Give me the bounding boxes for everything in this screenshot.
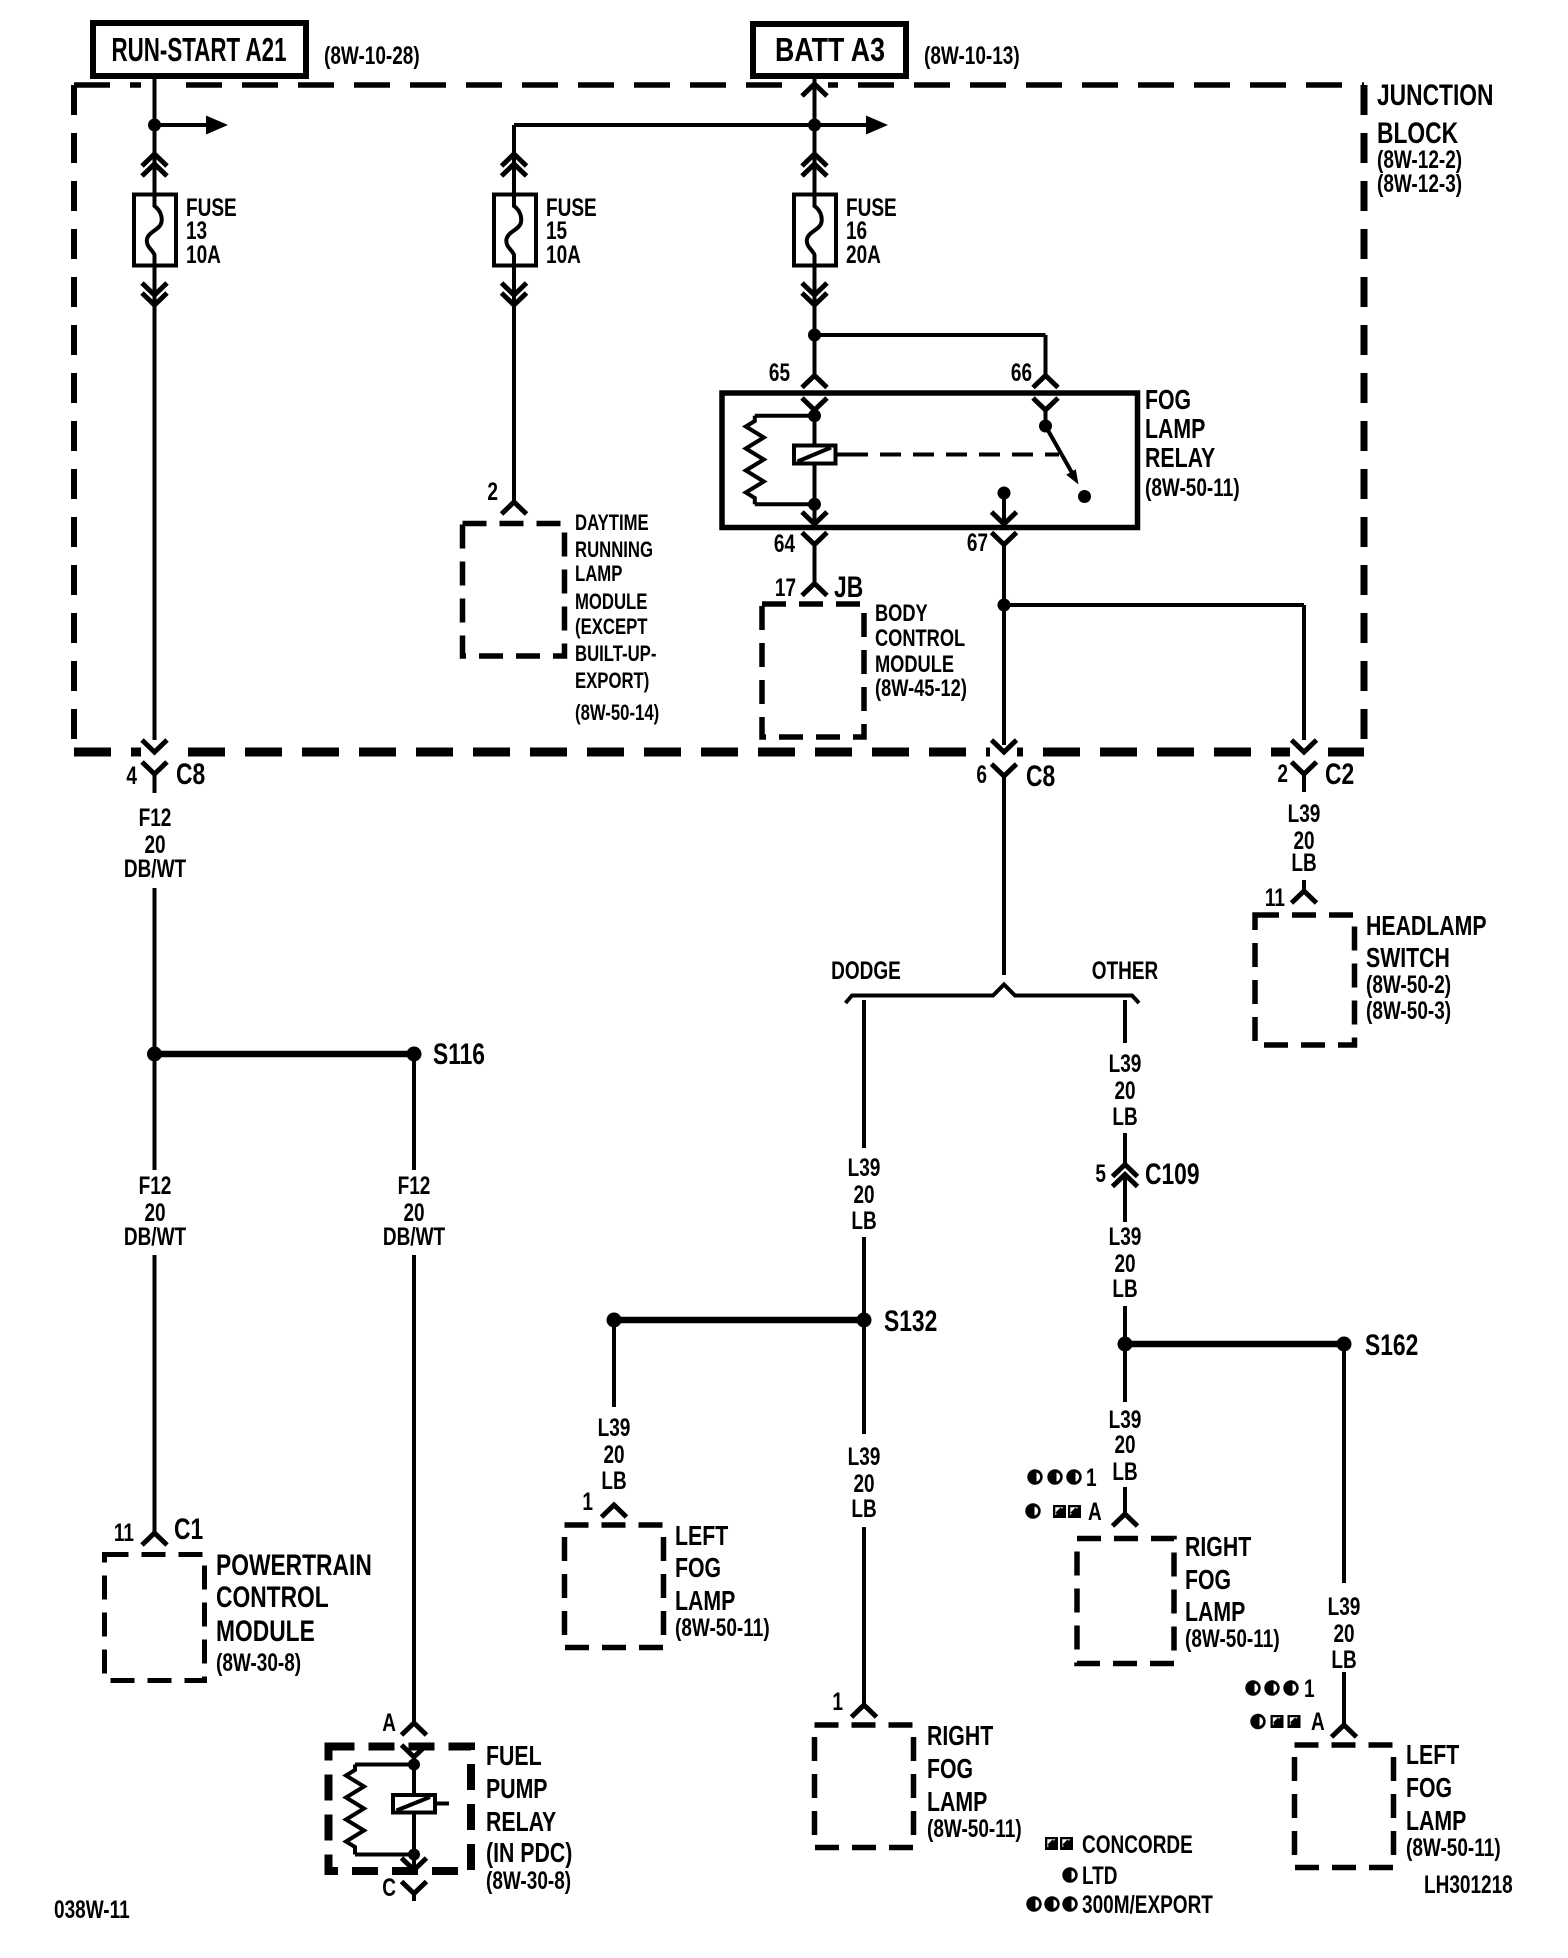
svg-text:LB: LB: [1112, 1103, 1137, 1131]
svg-text:(8W-50-2): (8W-50-2): [1366, 971, 1451, 999]
svg-text:BUILT-UP-: BUILT-UP-: [575, 641, 656, 666]
svg-text:20: 20: [1114, 1250, 1135, 1278]
svg-text:MODULE: MODULE: [875, 651, 954, 678]
svg-text:300M/EXPORT: 300M/EXPORT: [1082, 1891, 1213, 1919]
svg-text:(8W-30-8): (8W-30-8): [486, 1867, 571, 1895]
svg-text:LAMP: LAMP: [1145, 413, 1205, 444]
svg-text:10A: 10A: [186, 241, 221, 269]
svg-text:67: 67: [967, 529, 988, 557]
svg-text:(8W-12-3): (8W-12-3): [1377, 170, 1462, 198]
svg-text:F12: F12: [398, 1172, 431, 1200]
svg-text:CONCORDE: CONCORDE: [1082, 1831, 1193, 1859]
svg-text:FOG: FOG: [675, 1552, 721, 1583]
svg-text:11: 11: [114, 1519, 134, 1547]
svg-text:LB: LB: [1291, 849, 1316, 877]
svg-text:(8W-50-3): (8W-50-3): [1366, 997, 1451, 1025]
svg-text:DB/WT: DB/WT: [383, 1223, 445, 1251]
svg-text:LB: LB: [1112, 1275, 1137, 1303]
svg-text:RUNNING: RUNNING: [575, 537, 653, 562]
svg-text:20: 20: [1114, 1431, 1135, 1459]
svg-text:LB: LB: [601, 1467, 626, 1495]
svg-text:(EXCEPT: (EXCEPT: [575, 614, 648, 639]
svg-text:6: 6: [976, 761, 987, 789]
svg-text:2: 2: [487, 478, 498, 506]
svg-text:(8W-50-11): (8W-50-11): [927, 1815, 1022, 1843]
svg-text:F12: F12: [139, 804, 172, 832]
svg-text:1: 1: [1304, 1675, 1315, 1703]
svg-text:RELAY: RELAY: [486, 1806, 556, 1837]
svg-text:L39: L39: [1109, 1223, 1142, 1251]
svg-text:S162: S162: [1365, 1329, 1418, 1362]
svg-text:LEFT: LEFT: [675, 1520, 728, 1551]
svg-text:20: 20: [853, 1181, 874, 1209]
svg-text:4: 4: [126, 762, 137, 790]
svg-text:CONTROL: CONTROL: [216, 1581, 329, 1614]
svg-text:LTD: LTD: [1082, 1862, 1118, 1890]
svg-text:20: 20: [853, 1470, 874, 1498]
svg-text:A: A: [1311, 1708, 1325, 1736]
svg-text:(8W-50-11): (8W-50-11): [1185, 1625, 1280, 1653]
svg-text:17: 17: [775, 574, 796, 602]
svg-text:S116: S116: [433, 1038, 485, 1071]
svg-text:HEADLAMP: HEADLAMP: [1366, 910, 1487, 941]
svg-text:1: 1: [582, 1488, 593, 1516]
svg-text:(8W-50-14): (8W-50-14): [575, 700, 659, 725]
svg-text:LAMP: LAMP: [575, 561, 622, 586]
svg-text:64: 64: [774, 530, 795, 558]
svg-text:10A: 10A: [546, 241, 581, 269]
svg-text:DAYTIME: DAYTIME: [575, 510, 649, 535]
svg-text:20: 20: [1114, 1077, 1135, 1105]
svg-text:(8W-10-28): (8W-10-28): [324, 42, 420, 70]
svg-text:F12: F12: [139, 1172, 172, 1200]
svg-text:L39: L39: [848, 1154, 881, 1182]
svg-text:(IN PDC): (IN PDC): [486, 1837, 572, 1868]
svg-text:65: 65: [769, 359, 790, 387]
svg-text:S132: S132: [884, 1305, 937, 1338]
svg-text:(8W-50-11): (8W-50-11): [675, 1614, 770, 1642]
svg-text:LB: LB: [1112, 1458, 1137, 1486]
svg-text:BATT A3: BATT A3: [775, 31, 885, 68]
svg-text:CONTROL: CONTROL: [875, 625, 965, 652]
svg-text:LAMP: LAMP: [1406, 1805, 1466, 1836]
svg-text:C2: C2: [1325, 758, 1354, 791]
svg-text:FOG: FOG: [1406, 1772, 1452, 1803]
svg-text:FOG: FOG: [927, 1753, 973, 1784]
svg-text:BODY: BODY: [875, 600, 928, 627]
svg-text:L39: L39: [1328, 1593, 1361, 1621]
svg-text:DB/WT: DB/WT: [124, 1223, 186, 1251]
svg-text:(8W-45-12): (8W-45-12): [875, 675, 967, 702]
svg-text:LAMP: LAMP: [675, 1585, 735, 1616]
svg-text:(8W-50-11): (8W-50-11): [1145, 474, 1240, 502]
svg-text:LB: LB: [1331, 1646, 1356, 1674]
svg-text:DODGE: DODGE: [831, 957, 901, 985]
svg-text:20A: 20A: [846, 241, 881, 269]
svg-text:20: 20: [1333, 1620, 1354, 1648]
svg-text:LEFT: LEFT: [1406, 1739, 1459, 1770]
svg-text:L39: L39: [1109, 1050, 1142, 1078]
svg-text:L39: L39: [848, 1443, 881, 1471]
svg-text:PUMP: PUMP: [486, 1773, 548, 1804]
svg-text:SWITCH: SWITCH: [1366, 942, 1450, 973]
svg-text:20: 20: [603, 1441, 624, 1469]
svg-text:11: 11: [1265, 884, 1285, 912]
svg-text:RELAY: RELAY: [1145, 442, 1215, 473]
svg-text:66: 66: [1011, 359, 1032, 387]
svg-text:C8: C8: [176, 758, 205, 791]
svg-text:L39: L39: [1288, 800, 1321, 828]
svg-text:LAMP: LAMP: [927, 1786, 987, 1817]
svg-text:JUNCTION: JUNCTION: [1377, 79, 1494, 112]
svg-text:DB/WT: DB/WT: [124, 855, 186, 883]
svg-text:MODULE: MODULE: [575, 589, 647, 614]
svg-text:A: A: [1088, 1498, 1102, 1526]
svg-text:5: 5: [1095, 1160, 1106, 1188]
svg-text:RUN-START A21: RUN-START A21: [112, 31, 287, 68]
svg-text:LAMP: LAMP: [1185, 1596, 1245, 1627]
svg-text:2: 2: [1277, 760, 1288, 788]
svg-text:FOG: FOG: [1145, 384, 1191, 415]
svg-text:OTHER: OTHER: [1092, 957, 1159, 985]
svg-text:L39: L39: [598, 1414, 631, 1442]
svg-text:MODULE: MODULE: [216, 1615, 315, 1648]
svg-text:RIGHT: RIGHT: [927, 1720, 993, 1751]
svg-text:EXPORT): EXPORT): [575, 668, 649, 693]
svg-text:JB: JB: [834, 571, 863, 604]
svg-text:C109: C109: [1145, 1158, 1200, 1191]
svg-text:(8W-10-13): (8W-10-13): [924, 42, 1020, 70]
svg-text:POWERTRAIN: POWERTRAIN: [216, 1549, 372, 1582]
svg-text:C8: C8: [1026, 760, 1055, 793]
svg-text:C: C: [382, 1874, 396, 1902]
svg-text:A: A: [382, 1709, 396, 1737]
svg-text:LH301218: LH301218: [1424, 1871, 1513, 1899]
svg-text:1: 1: [832, 1688, 843, 1716]
svg-text:C1: C1: [174, 1513, 203, 1546]
svg-text:1: 1: [1086, 1464, 1097, 1492]
svg-text:FOG: FOG: [1185, 1564, 1231, 1595]
svg-text:FUEL: FUEL: [486, 1740, 542, 1771]
svg-text:RIGHT: RIGHT: [1185, 1531, 1251, 1562]
svg-text:LB: LB: [851, 1495, 876, 1523]
svg-text:038W-11: 038W-11: [54, 1896, 130, 1924]
svg-text:(8W-50-11): (8W-50-11): [1406, 1834, 1501, 1862]
svg-text:L39: L39: [1109, 1406, 1142, 1434]
svg-text:LB: LB: [851, 1207, 876, 1235]
svg-text:(8W-30-8): (8W-30-8): [216, 1649, 301, 1677]
